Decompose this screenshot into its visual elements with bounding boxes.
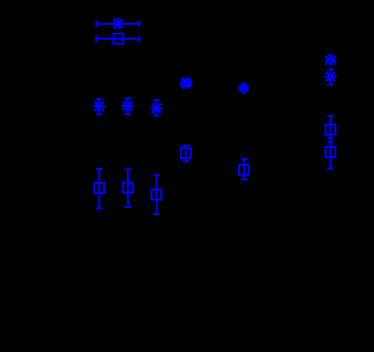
- wire: vertical net of R4: [98, 168, 100, 209]
- resistor R3 (box symbol, vertical): [239, 165, 249, 175]
- node tick: right terminal of R1: [138, 35, 140, 42]
- inductor pair L2 (double coil symbol with corner legs): [325, 54, 336, 65]
- resistor R8 (box symbol, vertical): [152, 190, 162, 200]
- node tick: bottom terminal of R8: [153, 213, 159, 215]
- source V1 (asterisk symbol, horizontal): [112, 18, 124, 30]
- node tick: bottom terminal of R5: [125, 206, 131, 208]
- resistor R2 (box symbol, vertical): [181, 148, 191, 158]
- source I3 (asterisk symbol, vertical): [151, 103, 163, 115]
- node tick: top terminal of R8: [153, 174, 159, 176]
- node tick: top terminal of I3: [153, 99, 159, 101]
- node tick: top terminal of R2: [183, 145, 189, 147]
- node tick: top terminal of I1: [96, 98, 102, 100]
- source I1 (asterisk symbol, vertical): [93, 101, 105, 113]
- node tick: top terminal of R6: [327, 115, 333, 117]
- node tick: bottom terminal of R2: [183, 161, 189, 163]
- wire: vertical net of I3: [156, 99, 158, 116]
- wire: vertical net of R5: [127, 169, 129, 209]
- node tick: top terminal of R3: [241, 158, 247, 160]
- wire: horizontal net of V1: [96, 23, 140, 25]
- resistor R4 (box symbol, vertical): [94, 183, 104, 193]
- wire: vertical net of I2: [127, 98, 129, 115]
- node tick: top terminal of I4: [327, 68, 333, 70]
- inductor pair L1 (double coil symbol with whiskers): [238, 83, 249, 94]
- source I2 (asterisk symbol, vertical): [122, 100, 134, 112]
- component cluster X1 (overlapped box and asterisk, dense blob): [180, 77, 192, 89]
- wire: vertical net of R2: [185, 145, 187, 162]
- wire: horizontal net of R1: [96, 38, 140, 40]
- wire: vertical net of I4: [329, 69, 331, 86]
- resistor R7 (box symbol, vertical): [326, 147, 336, 157]
- node tick: bottom terminal of I3: [153, 115, 159, 117]
- node tick: top terminal of R5: [125, 168, 131, 170]
- wire: vertical net of I1: [98, 98, 100, 115]
- wire: vertical net of R8: [155, 174, 157, 215]
- node tick: top terminal of R4: [96, 168, 102, 170]
- resistor R5 (box symbol, vertical): [123, 183, 133, 193]
- node tick: left terminal of V1: [95, 20, 97, 27]
- node tick: bottom terminal of I4: [327, 84, 333, 86]
- node tick: bottom terminal of I1: [96, 114, 102, 116]
- resistor R6 (box symbol, vertical): [326, 125, 336, 135]
- node tick: right terminal of V1: [138, 20, 140, 27]
- node tick: top terminal of R7: [328, 141, 333, 143]
- node tick: bottom terminal of R4: [96, 208, 102, 210]
- source I4 (asterisk symbol, vertical): [324, 71, 336, 83]
- node tick: bottom terminal of I2: [124, 113, 130, 115]
- node tick: top terminal of I2: [124, 98, 130, 100]
- node tick: bottom terminal of R3: [241, 179, 247, 181]
- node tick: bottom terminal of R6: [328, 138, 333, 140]
- resistor R1 (box symbol, horizontal): [114, 34, 124, 44]
- wire: vertical net of R3: [243, 158, 245, 181]
- node tick: bottom terminal of R7: [327, 168, 333, 170]
- node tick: left terminal of R1: [95, 35, 97, 42]
- wire: vertical net of chain R6/R7: [329, 115, 331, 169]
